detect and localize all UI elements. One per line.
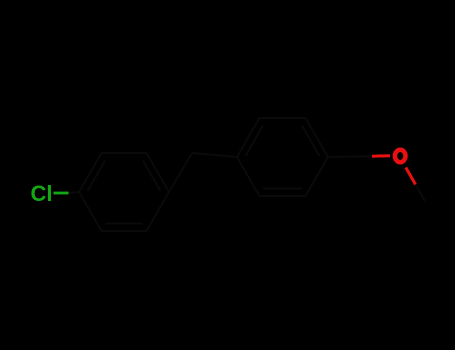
bridge bond CH2-CH2 segment 1 (169, 153, 192, 192)
C-O bond dark half (328, 155, 372, 158)
benzene ring B (methoxyphenyl) outline (237, 118, 328, 196)
O-CH3 bond dark half (416, 185, 426, 202)
svg-text:Cl: Cl (31, 181, 53, 206)
Cl-C bond dark half (69, 192, 80, 193)
Cl-C bond green half (54, 192, 69, 195)
benzene ring A (chlorophenyl) outline (79, 153, 169, 231)
bridge bond CH2-CH2 segment 2 (192, 153, 237, 157)
O atom label (drawn as thick ellipse) (395, 150, 406, 162)
ring A double bond inner lines (88, 161, 161, 224)
O-CH3 bond red half (406, 168, 416, 185)
C-O bond red half (372, 154, 390, 158)
ring B double bond inner lines (246, 126, 320, 189)
